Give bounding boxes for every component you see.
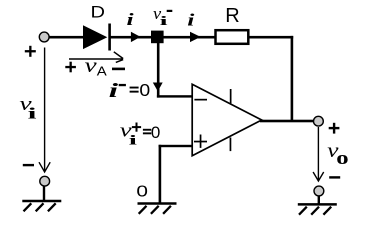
label vi	[19, 94, 32, 115]
wire: output node stem to ground	[318, 196, 320, 205]
svg-text:A: A	[97, 64, 108, 79]
node: output bottom (gray)	[314, 186, 324, 196]
current arrow i (left of square node)	[131, 32, 141, 42]
ground (right)	[298, 204, 337, 214]
label i (first)	[127, 10, 134, 29]
svg-text:i: i	[127, 10, 134, 29]
wire: resistor to top-right corner	[249, 36, 293, 39]
node: input top (gray)	[39, 32, 49, 42]
op-amp minus input mark	[194, 99, 207, 101]
label vi- above square	[153, 4, 161, 23]
svg-text:i: i	[187, 10, 194, 29]
op-amp plus input mark	[194, 141, 207, 143]
diode cathode bar	[108, 24, 111, 51]
svg-text:i: i	[28, 105, 37, 123]
svg-text:0: 0	[151, 123, 160, 142]
diode D (triangle)	[83, 25, 107, 49]
node: input bottom (gray)	[40, 176, 50, 186]
square node vi-	[151, 31, 164, 44]
label vo	[327, 139, 339, 163]
plus of vA	[65, 66, 76, 68]
wire: op-amp output to output node	[260, 120, 315, 123]
current arrow i (right of square node)	[190, 32, 201, 42]
resistor R	[216, 30, 249, 44]
ground (left)	[22, 201, 61, 211]
plus of vi	[25, 50, 36, 52]
wire: non-inverting input down to ground	[159, 145, 162, 203]
vA arrow (above label)	[69, 52, 123, 63]
ground (middle)	[138, 204, 177, 214]
input voltage arrow vi	[39, 48, 50, 173]
plus of vo	[329, 127, 340, 129]
minus of vi	[23, 164, 34, 166]
label i (second)	[187, 10, 194, 29]
wire: non-inverting input horizontal	[159, 145, 193, 147]
op-amp V+ power tick	[230, 89, 232, 103]
label i-=0	[109, 80, 119, 102]
svg-text:0: 0	[139, 80, 150, 100]
svg-text:i: i	[109, 80, 119, 102]
op-amp U1	[192, 84, 262, 155]
arrowhead i- current into op-amp (down)	[153, 83, 163, 92]
wire: square node down to inverting input elbow	[157, 42, 160, 98]
wire: left node stem to ground	[43, 186, 45, 201]
wire: inverting input horizontal	[157, 95, 193, 97]
output voltage arrow vo	[313, 127, 324, 181]
svg-text:R: R	[225, 5, 239, 27]
wire: input node to diode anode	[47, 36, 84, 39]
label vA	[85, 55, 98, 77]
minus of vA	[112, 68, 125, 71]
op-amp V- power tick	[230, 138, 232, 152]
wire: feedback vertical segment	[291, 36, 294, 122]
node: output top (gray)	[314, 116, 324, 126]
minus of vo	[329, 176, 340, 178]
label 0 at middle ground	[136, 182, 148, 200]
svg-text:0: 0	[136, 182, 148, 200]
svg-text:i: i	[160, 13, 168, 28]
svg-text:i: i	[129, 132, 138, 148]
svg-text:o: o	[336, 147, 348, 169]
wire: diode cathode to resistor	[110, 36, 215, 39]
label vi+=0	[120, 119, 133, 140]
svg-text:D: D	[90, 2, 104, 21]
label D	[90, 2, 104, 21]
svg-text:v: v	[85, 55, 98, 77]
